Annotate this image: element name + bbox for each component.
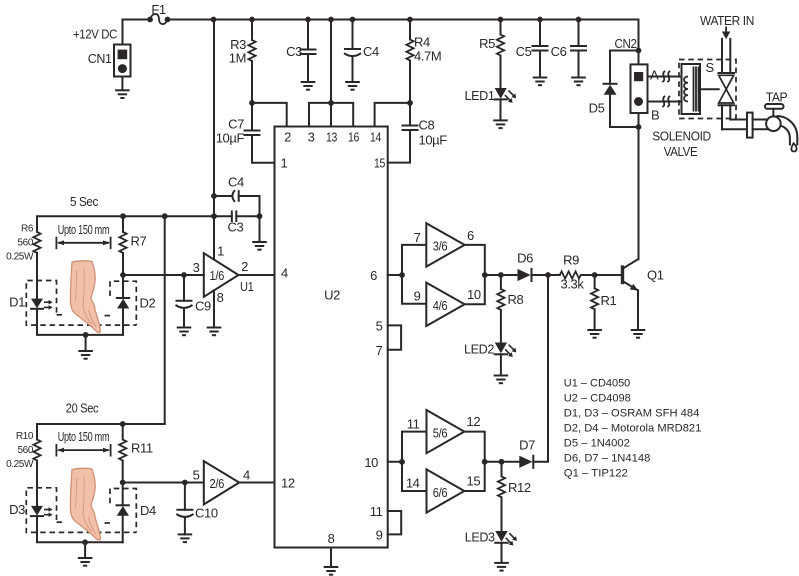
wire: junction down to D7 xyxy=(533,275,548,462)
op-amp/IC U2 CD4098 xyxy=(275,127,388,548)
node: D6/D7 junction xyxy=(545,272,551,278)
op-amp U1 buffer 5/6 xyxy=(427,410,465,453)
solenoid coil S xyxy=(682,64,701,114)
wire: +12V feed from CN1 up to rail xyxy=(123,20,151,45)
svg-text:C8: C8 xyxy=(419,118,435,133)
svg-text:10µF: 10µF xyxy=(419,133,448,148)
svg-text:8: 8 xyxy=(217,290,224,305)
parts list xyxy=(564,378,702,480)
svg-text:20 Sec: 20 Sec xyxy=(66,402,99,416)
node: base node xyxy=(592,272,598,278)
svg-text:15: 15 xyxy=(467,474,481,489)
resistor R8 xyxy=(500,275,502,289)
wire: 20 Sec sensor rail xyxy=(37,424,165,440)
svg-text:F1: F1 xyxy=(151,2,166,17)
svg-text:3: 3 xyxy=(193,260,200,275)
svg-text:R4: R4 xyxy=(414,35,430,50)
node: R3/C7 node xyxy=(249,100,255,106)
svg-text:2/6: 2/6 xyxy=(210,476,225,491)
connector CN1 xyxy=(114,45,131,77)
svg-text:4.7M: 4.7M xyxy=(414,49,441,64)
svg-text:A: A xyxy=(650,68,659,83)
LED3 xyxy=(495,531,507,542)
op-amp U1 buffer 2/6 xyxy=(204,461,239,504)
wire: +12V drop to sensor rail xyxy=(213,20,215,260)
svg-text:2: 2 xyxy=(284,130,291,145)
LED1 xyxy=(495,88,507,99)
D3 dashed enclosure xyxy=(26,488,136,533)
svg-text:R1: R1 xyxy=(601,293,617,308)
svg-text:11: 11 xyxy=(370,504,383,519)
node: D5 top junction xyxy=(636,48,642,54)
svg-text:R8: R8 xyxy=(508,292,524,307)
svg-text:D2: D2 xyxy=(140,296,156,311)
op-amp U1 buffer 6/6 xyxy=(427,469,465,512)
wire: LED3 to ground xyxy=(501,543,503,563)
svg-text:5: 5 xyxy=(193,468,200,483)
capacitor C3 (rail) xyxy=(307,20,309,50)
svg-text:D1: D1 xyxy=(9,295,25,310)
wire: D3 to common ground wire xyxy=(37,516,123,542)
svg-text:3.3k: 3.3k xyxy=(561,277,585,292)
svg-text:TAP: TAP xyxy=(766,91,788,105)
svg-text:D5 – 1N4002: D5 – 1N4002 xyxy=(564,438,630,450)
svg-text:6: 6 xyxy=(467,228,474,243)
svg-text:LED3: LED3 xyxy=(465,530,495,545)
wire: buffer outputs joined xyxy=(464,432,484,491)
svg-text:8: 8 xyxy=(328,531,335,546)
svg-text:C3: C3 xyxy=(228,220,244,235)
resistor R9 xyxy=(548,274,560,276)
svg-text:14: 14 xyxy=(406,476,420,491)
svg-text:10µF: 10µF xyxy=(216,131,245,146)
pipe: water inlet xyxy=(721,39,723,73)
ground xyxy=(587,330,602,338)
svg-text:14: 14 xyxy=(370,130,381,145)
svg-text:9: 9 xyxy=(376,528,383,543)
node: CN2 bottom junction xyxy=(636,124,642,130)
capacitor C4 (rail) xyxy=(352,20,354,50)
svg-text:R7: R7 xyxy=(131,234,147,249)
wire: sensor-1 output to U1 pin 3 xyxy=(123,274,204,276)
capacitor C8 xyxy=(409,103,411,126)
wire: D1 to common ground wire xyxy=(37,309,123,335)
op-amp U1 buffer 1/6 xyxy=(204,253,239,297)
capacitor C5 xyxy=(539,20,541,47)
svg-text:C4: C4 xyxy=(228,175,244,190)
wire: solenoid link to valve xyxy=(700,88,719,90)
svg-text:R11: R11 xyxy=(131,441,153,456)
svg-text:D6, D7 – 1N4148: D6, D7 – 1N4148 xyxy=(564,453,651,465)
svg-text:5 Sec: 5 Sec xyxy=(70,195,98,209)
wire: sensor-2 output to 2/6 buffer xyxy=(123,482,204,484)
svg-text:10: 10 xyxy=(364,455,378,470)
ground xyxy=(493,120,508,128)
wire: supply drop to 20 Sec rail xyxy=(164,216,166,424)
capacitor C9 xyxy=(181,272,187,278)
svg-text:5: 5 xyxy=(376,319,383,334)
svg-text:CN1: CN1 xyxy=(88,52,112,66)
wire: +12V top rail xyxy=(168,19,639,21)
wire: buffer outputs joined xyxy=(465,245,485,304)
fuse F1 xyxy=(150,14,168,24)
node: sensor-1 output xyxy=(120,272,126,278)
svg-text:CN2: CN2 xyxy=(615,37,637,51)
resistor R11 xyxy=(122,424,124,440)
svg-text:7: 7 xyxy=(414,230,421,245)
U2 right-side pin brackets 11/9 xyxy=(388,511,402,534)
capacitor C6 xyxy=(578,20,580,47)
svg-text:U2: U2 xyxy=(324,288,340,303)
U2 right-side pin brackets 5/7 xyxy=(388,325,401,349)
svg-text:16: 16 xyxy=(348,130,359,145)
svg-text:U1: U1 xyxy=(240,279,254,294)
svg-text:9: 9 xyxy=(414,289,421,304)
svg-text:D4: D4 xyxy=(140,503,156,518)
svg-text:C10: C10 xyxy=(195,506,218,521)
diode D6 xyxy=(518,269,531,281)
svg-text:Upto 150 mm: Upto 150 mm xyxy=(58,429,110,444)
svg-text:1: 1 xyxy=(217,244,224,259)
ground xyxy=(115,90,130,98)
svg-text:LED2: LED2 xyxy=(464,342,494,357)
svg-text:D7: D7 xyxy=(519,438,535,453)
svg-text:4/6: 4/6 xyxy=(433,298,448,313)
diode D7 xyxy=(519,456,532,468)
svg-text:5/6: 5/6 xyxy=(433,426,448,441)
wire: Q1 emitter to ground xyxy=(637,290,639,330)
svg-text:D1, D3 – OSRAM SFH 484: D1, D3 – OSRAM SFH 484 xyxy=(564,408,700,420)
LED2 xyxy=(495,343,507,354)
svg-text:1: 1 xyxy=(281,156,288,171)
svg-text:13: 13 xyxy=(326,130,337,145)
svg-text:R12: R12 xyxy=(508,480,531,495)
IR LED D3 xyxy=(31,506,43,516)
svg-text:Q1: Q1 xyxy=(647,268,664,283)
svg-text:7: 7 xyxy=(376,343,383,358)
node: rail junction dots xyxy=(211,17,217,23)
svg-text:R6: R6 xyxy=(21,224,34,235)
svg-text:U1 – CD4050: U1 – CD4050 xyxy=(564,378,631,390)
wire: U1 output to U2 pin 4 xyxy=(239,274,275,276)
ground xyxy=(85,335,87,351)
wire: U1 pin 8 to ground xyxy=(213,290,215,327)
ground xyxy=(252,242,267,250)
D1 dashed enclosure xyxy=(26,281,136,326)
svg-text:12: 12 xyxy=(281,476,295,491)
svg-text:WATER IN: WATER IN xyxy=(700,14,754,28)
svg-text:C5: C5 xyxy=(516,44,532,59)
resistor R12 xyxy=(501,462,503,477)
capacitor C10 xyxy=(182,480,188,486)
svg-text:1M: 1M xyxy=(229,51,246,66)
pipe: valve to elbow xyxy=(721,105,723,129)
hand (20 sec sensor) xyxy=(70,468,100,540)
svg-text:3/6: 3/6 xyxy=(433,239,448,254)
svg-text:Upto 150 mm: Upto 150 mm xyxy=(58,222,110,237)
tap body xyxy=(766,116,781,131)
svg-text:B: B xyxy=(651,108,659,123)
svg-text:6: 6 xyxy=(370,268,377,283)
capacitor C4 (at U1) xyxy=(214,195,231,197)
photodiode D2 xyxy=(122,275,124,298)
svg-text:D6: D6 xyxy=(517,251,533,266)
wire: rail down to CN2 xyxy=(638,20,640,65)
svg-text:Q1 – TIP122: Q1 – TIP122 xyxy=(564,468,628,480)
D2 dashed enclosure xyxy=(110,281,136,325)
wire: CN1 to ground xyxy=(121,77,123,91)
svg-text:4: 4 xyxy=(243,468,250,483)
svg-text:U2 – CD4098: U2 – CD4098 xyxy=(564,393,631,405)
svg-text:15: 15 xyxy=(374,156,385,171)
svg-text:560: 560 xyxy=(18,445,34,456)
svg-text:4: 4 xyxy=(281,266,288,281)
pipe flange xyxy=(747,113,753,138)
ground xyxy=(84,542,86,558)
wire: LED1 to ground xyxy=(500,99,502,120)
svg-text:SOLENOID: SOLENOID xyxy=(652,130,711,144)
svg-text:+12V DC: +12V DC xyxy=(73,27,117,42)
svg-text:VALVE: VALVE xyxy=(664,145,698,159)
resistor R10 xyxy=(33,440,40,461)
svg-text:D3: D3 xyxy=(9,502,25,517)
wire: CN2 down to Q1 collector xyxy=(638,113,640,259)
connector CN2 xyxy=(631,64,648,113)
svg-text:S: S xyxy=(706,60,715,75)
svg-text:0.25W: 0.25W xyxy=(6,252,34,263)
resistor R3 xyxy=(251,20,253,41)
svg-text:C7: C7 xyxy=(228,117,244,132)
resistor R5 xyxy=(500,20,502,35)
wire: 5 Sec sensor rail xyxy=(37,216,214,232)
capacitor C3 (at U1) xyxy=(214,215,232,217)
valve (bowtie) xyxy=(719,75,734,89)
svg-text:C4: C4 xyxy=(363,44,379,59)
resistor R7 xyxy=(122,216,124,232)
D4 dashed enclosure xyxy=(110,489,136,533)
svg-text:560: 560 xyxy=(18,238,34,249)
wire: LED2 to ground xyxy=(500,354,502,375)
svg-text:R10: R10 xyxy=(16,431,34,442)
op-amp U1 buffer 3/6 xyxy=(426,223,464,266)
svg-text:R5: R5 xyxy=(479,36,495,51)
svg-text:11: 11 xyxy=(407,417,420,432)
wire: U2 pin 6 to buffer inputs xyxy=(388,274,402,276)
resistor R6 xyxy=(33,232,40,253)
hand (5 sec sensor) xyxy=(70,261,100,333)
resistor R1 xyxy=(594,275,596,288)
diode D5 xyxy=(610,51,639,84)
svg-text:R9: R9 xyxy=(563,253,579,268)
svg-text:2: 2 xyxy=(241,259,248,274)
wire: pin A to solenoid xyxy=(648,76,689,78)
svg-text:3: 3 xyxy=(308,130,315,145)
op-amp U1 buffer 4/6 xyxy=(426,283,464,326)
svg-text:1/6: 1/6 xyxy=(210,268,225,283)
IR LED D1 xyxy=(31,299,43,309)
pipe: flange to tap xyxy=(753,119,768,121)
wire: node to pin 2 xyxy=(252,103,287,127)
svg-text:C6: C6 xyxy=(551,44,567,59)
wire: 2/6 output to U2 pin 12 xyxy=(239,482,274,484)
svg-text:D2, D4 – Motorola MRD821: D2, D4 – Motorola MRD821 xyxy=(564,423,702,435)
svg-text:10: 10 xyxy=(467,287,481,302)
solenoid valve dashed enclosure xyxy=(679,60,736,119)
wire: U2 pin 10 to buffer inputs xyxy=(388,461,402,463)
photodiode D4 xyxy=(122,483,124,506)
wire: pin B to solenoid xyxy=(648,101,689,103)
wire: U2 pin 8 to ground xyxy=(330,548,332,568)
tap handle xyxy=(772,109,774,117)
svg-text:0.25W: 0.25W xyxy=(6,459,34,470)
wire: R4 node to pin 14 xyxy=(407,100,413,106)
wire: to D6 xyxy=(485,274,518,276)
svg-text:12: 12 xyxy=(467,414,481,429)
svg-text:D5: D5 xyxy=(589,101,605,116)
tap spout xyxy=(777,116,798,146)
svg-text:C9: C9 xyxy=(195,299,211,314)
node: sensor-2 output xyxy=(120,480,126,486)
svg-text:6/6: 6/6 xyxy=(433,485,448,500)
transistor Q1 xyxy=(621,265,624,284)
wire: to D7 xyxy=(485,461,520,463)
svg-text:C3: C3 xyxy=(286,44,302,59)
wire: to Q1 base xyxy=(595,274,622,276)
wire: rail to pins 3,13,16 xyxy=(330,20,332,127)
svg-text:LED1: LED1 xyxy=(465,88,495,103)
water droplet xyxy=(791,143,796,151)
resistor R4 xyxy=(409,20,411,40)
capacitor C7 xyxy=(251,103,253,131)
